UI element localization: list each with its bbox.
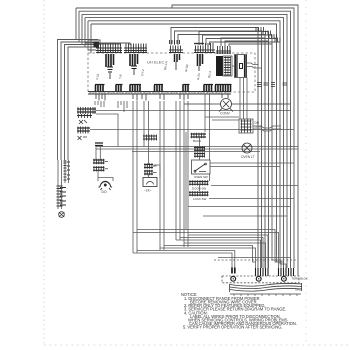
wire RY1 to bus — [96, 110, 290, 112]
mid vertical harness m1 — [176, 101, 188, 247]
wire riser from K module b — [225, 41, 268, 46]
wire fan to latch row — [205, 117, 239, 120]
right vertical harness v6 — [276, 80, 278, 255]
oven lamp LP1 — [242, 143, 252, 153]
wire riser from P2 connector up — [85, 43, 130, 45]
page border dotted right — [305, 0, 307, 345]
svg-text:BU-4: BU-4 — [207, 70, 212, 78]
plug PL1 hatch — [93, 159, 108, 164]
bus B2 — [96, 148, 298, 150]
wire corner left bundle w3 — [65, 14, 99, 160]
right vertical harness v5 — [271, 80, 273, 255]
wire feeder f1 — [133, 253, 232, 268]
wire riser from P4 connector b — [203, 35, 273, 80]
pins below bar — [96, 94, 228, 101]
wire loop L6 — [91, 24, 277, 80]
wire DL1 right wiggle — [253, 126, 281, 131]
wire labels on staircase — [256, 27, 280, 42]
wire feeder f6 — [180, 238, 263, 269]
wire feeder f5 — [176, 240, 261, 268]
wire bus y216 — [203, 215, 287, 217]
wire drop J1 to RY1 — [95, 101, 104, 107]
connector P4 hanging plug — [198, 54, 203, 71]
svg-text:TERM BLOK: TERM BLOK — [292, 277, 308, 281]
wire feeder f8 — [188, 235, 268, 268]
wire feeder f4 — [164, 246, 256, 263]
terminal block pins group 1 — [232, 268, 235, 274]
wire riser from P4 connector c — [206, 39, 277, 81]
wire corner left jog w6 — [90, 24, 92, 53]
wire LK loop right — [149, 165, 161, 178]
wire corner left bundle w1 — [58, 8, 99, 160]
relay RY2 mark — [78, 136, 88, 140]
svg-text:W-5B: W-5B — [184, 64, 189, 72]
connector J2 plug — [116, 85, 123, 92]
connector P3 on top edge — [169, 46, 183, 54]
wire riser from P3 connector c — [178, 35, 265, 81]
connector P2 hanging plug — [130, 54, 138, 75]
terminal block pins group 3 — [279, 268, 294, 276]
svg-text:CONV: CONV — [220, 112, 231, 116]
wire labels on right harness — [257, 83, 287, 87]
bus B1 main horizontal — [96, 146, 298, 148]
connector P1 hanging plug — [106, 54, 114, 79]
right vertical harness v4 — [268, 80, 270, 268]
connector P4 on top edge — [194, 43, 215, 53]
plug LK1 hatch — [144, 163, 157, 168]
wire loop L5 — [88, 21, 280, 80]
wire bus y199 — [209, 198, 294, 200]
bus B3 partial — [132, 151, 260, 153]
terminal block dashed body — [222, 276, 299, 283]
left harness tail lines — [58, 160, 69, 209]
terminal block pins group 2 — [256, 268, 269, 276]
node P1 wire entry — [94, 42, 100, 48]
right vertical harness v7 — [279, 80, 281, 255]
svg-text:OVEN SW: OVEN SW — [194, 175, 208, 179]
motor LK dome — [147, 182, 154, 185]
wire top outer single — [172, 5, 298, 30]
wire loop L1 outer harness — [76, 8, 294, 268]
switch SW1 box with contact — [192, 160, 211, 174]
plug LK2 hatch — [144, 170, 157, 175]
svg-text:Y-8: Y-8 — [118, 74, 123, 79]
motor LK box — [143, 178, 157, 187]
wire E1 right — [210, 163, 294, 167]
relay RY2 cluster — [77, 127, 90, 134]
left harness wire labels — [57, 161, 71, 206]
wire loop L3 — [82, 14, 287, 268]
svg-text:GRD: GRD — [295, 288, 301, 292]
wire RY1b — [96, 114, 118, 147]
svg-text:GY-2: GY-2 — [140, 69, 145, 77]
board bottom edge bar — [88, 91, 231, 95]
node DO feed corner — [95, 143, 103, 146]
connector J5 plug — [183, 85, 190, 92]
plug PL2 hatch — [93, 166, 108, 171]
wire RY2 to right — [90, 129, 294, 131]
notice text block — [181, 292, 297, 330]
module K1 dark IC on board — [216, 56, 223, 76]
wire drop J2 down — [118, 101, 127, 112]
plug PB3 comb — [194, 152, 205, 157]
wire bus y188 — [211, 185, 298, 187]
relay RY1 mark — [79, 120, 87, 124]
bottom feeder wires from mid harness — [133, 230, 286, 269]
wire feeder f2 — [137, 251, 235, 268]
connector J6 plug — [204, 85, 214, 92]
switch SW2 comb — [189, 191, 209, 196]
wire LK feed — [148, 147, 150, 164]
plug PB1 comb — [191, 133, 207, 138]
page border dotted left — [43, 0, 45, 346]
wire feeder f3 — [160, 248, 256, 268]
wire corner left jog w5 — [88, 21, 96, 50]
module K2 outline with side bars — [232, 55, 262, 78]
right vertical harness v3 — [264, 80, 266, 268]
wire cover dashed line — [218, 257, 290, 259]
drop harness right into TB pins — [272, 255, 281, 268]
svg-text:BK-1A: BK-1A — [163, 61, 168, 70]
right vertical harness v2 — [261, 80, 263, 268]
plug PB2 comb — [194, 146, 205, 151]
connector P1 on top edge — [96, 44, 122, 54]
terminal lug T2 — [256, 276, 261, 281]
left harness end plug — [59, 212, 65, 218]
connector P5 pins above K1 — [216, 46, 231, 54]
control board UH ELEC dashed box — [88, 53, 255, 92]
terminal lug T1 — [231, 276, 236, 281]
wire PL2 to bell — [98, 172, 113, 182]
motor DO bell — [99, 181, 113, 190]
wire corner left bundle w4 — [68, 18, 98, 160]
connector P3 hanging plug — [175, 54, 180, 70]
sensor label comb — [143, 135, 157, 141]
connector P2 on top edge — [124, 44, 147, 54]
wire riser from P3 connector — [171, 28, 258, 81]
terminal lug T3 — [282, 276, 287, 281]
wire riser from K module — [221, 38, 265, 46]
wire loop L4 — [85, 18, 284, 268]
wire DO drops — [96, 146, 100, 160]
right vertical harness v1 — [257, 80, 259, 268]
wire riser from P4 connector d — [210, 42, 281, 80]
wire riser from K module c — [229, 44, 272, 46]
wire riser from P4 connector — [199, 32, 269, 81]
supply cable wavy lines — [230, 283, 303, 296]
connector J7 plug — [215, 85, 232, 92]
wire name labels above J plugs — [95, 61, 212, 80]
right outer vertical v8 — [297, 30, 299, 276]
wire loop L2 — [79, 11, 291, 268]
wire column spine — [186, 132, 200, 230]
wire feeder f9 top — [133, 233, 279, 269]
svg-text:DO: DO — [102, 190, 107, 194]
page border dotted bottom — [44, 344, 350, 346]
wire bus y206 — [188, 206, 290, 208]
wire feeder f7 — [184, 243, 266, 268]
wire J6 to SW1 — [205, 94, 210, 181]
connector J3 plug — [130, 85, 142, 92]
mid vertical harness m2 — [133, 101, 149, 253]
wire corner left bundle w2 — [61, 11, 98, 160]
svg-text:UH ELEC: UH ELEC — [147, 60, 164, 65]
wire end marks above P3 — [170, 40, 180, 44]
connector J1 plug — [95, 85, 105, 92]
door switch DS1 comb — [189, 180, 209, 185]
svg-text:R-2C: R-2C — [196, 72, 201, 80]
mid vertical harness m3 — [160, 101, 164, 250]
wire feeder f10 — [137, 230, 282, 263]
connector J4 plug — [154, 85, 163, 92]
wire riser from P1 connector up — [88, 40, 100, 45]
svg-text:V-31: V-31 — [95, 73, 100, 80]
latch module DL1 — [239, 119, 253, 133]
svg-text:LOCK SW: LOCK SW — [193, 197, 207, 201]
svg-text:5. VERIFY PROPER OPERATION AF: 5. VERIFY PROPER OPERATION AFTER SERVICI… — [183, 325, 283, 330]
relay RY1 cluster — [77, 107, 96, 118]
svg-text:~LK~: ~LK~ — [144, 189, 152, 193]
fan motor M1 circle — [184, 99, 290, 112]
wire K2 to latch — [240, 78, 247, 120]
wire riser from P3 connector b — [175, 31, 262, 80]
svg-text:OVEN LT: OVEN LT — [241, 155, 254, 159]
